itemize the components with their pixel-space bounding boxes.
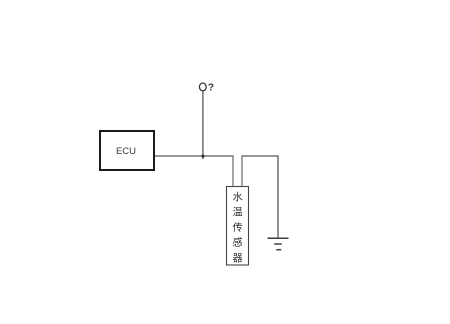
- wire: sensor pin 2 riser: [241, 155, 243, 186]
- svg-text:传: 传: [233, 222, 243, 234]
- ECU box U1: [100, 131, 154, 170]
- svg-text:水: 水: [233, 192, 243, 204]
- node: test point circle: [199, 83, 206, 91]
- svg-text:ECU: ECU: [116, 146, 136, 157]
- wire: test point to junction: [202, 91, 204, 159]
- svg-text:器: 器: [233, 252, 243, 264]
- water temp sensor box: [227, 187, 249, 266]
- svg-text:?: ?: [208, 82, 214, 93]
- wire: ECU output horizontal: [155, 155, 234, 157]
- wire: drop to sensor pin 1: [232, 155, 234, 186]
- junction A: [202, 155, 205, 158]
- svg-text:温: 温: [233, 207, 243, 219]
- ground: [268, 238, 289, 250]
- wire: drop to ground: [277, 155, 279, 238]
- wire: top horizontal to ground: [242, 155, 279, 157]
- svg-text:感: 感: [233, 236, 243, 249]
